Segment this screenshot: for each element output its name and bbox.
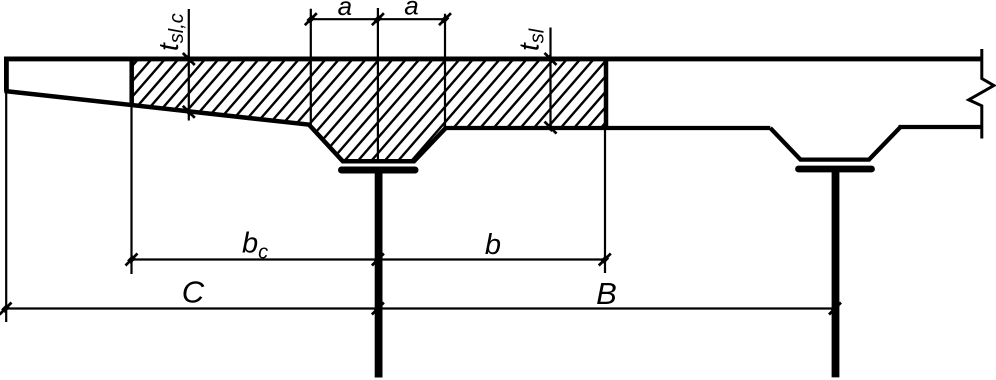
stiffener web right	[832, 171, 840, 377]
slab bottom edge right span	[899, 125, 982, 129]
trough outline right stiffener	[770, 127, 900, 160]
extension line a right	[444, 14, 446, 128]
arrow t_sl top	[545, 53, 557, 65]
tick C left	[0, 303, 12, 315]
svg-text:tsl,c: tsl,c	[153, 13, 188, 51]
svg-text:C: C	[182, 275, 205, 310]
dimension line bc-b	[132, 258, 605, 260]
extension line a left	[310, 9, 312, 125]
hatch zone left boundary	[129, 57, 134, 108]
stiffener flange middle	[342, 167, 416, 174]
extension line left edge	[5, 93, 7, 322]
centerline middle stiffener	[377, 8, 379, 161]
svg-text:bc: bc	[242, 228, 268, 264]
stiffener flange right	[799, 166, 872, 173]
dimension line C-B	[6, 307, 836, 309]
slab top edge	[4, 56, 982, 61]
extension line below hatch right boundary	[604, 130, 606, 273]
tick bc left	[126, 254, 138, 266]
slab left end edge	[4, 57, 9, 92]
hatched effective slab area	[13, 48, 737, 172]
dimension line a-a	[311, 18, 445, 20]
arrow t_sl,c bottom	[183, 106, 195, 118]
svg-text:B: B	[596, 276, 617, 311]
svg-text:b: b	[485, 229, 501, 261]
svg-text:a: a	[338, 0, 352, 21]
slab bottom edge middle span	[444, 126, 771, 130]
hatch zone right boundary	[604, 57, 609, 131]
dimension line t_sl,c	[188, 9, 190, 121]
break symbol right end	[969, 49, 994, 139]
haunch outline middle stiffener	[309, 125, 446, 162]
tick a right	[439, 13, 451, 25]
tick C-B middle	[372, 303, 384, 315]
stiffener web middle	[375, 172, 383, 378]
tick bc-b middle	[372, 254, 384, 266]
svg-text:a: a	[404, 0, 418, 21]
arrow t_sl bottom	[545, 122, 557, 134]
tick b right	[599, 254, 611, 266]
arrow t_sl,c top	[183, 53, 195, 65]
svg-text:tsl: tsl	[514, 28, 549, 51]
slab tapered bottom edge	[5, 91, 310, 125]
tick a middle	[372, 13, 384, 25]
tick B right	[829, 303, 841, 315]
dimension line t_sl	[549, 28, 551, 131]
extension line below hatch left boundary	[130, 106, 132, 274]
tick a left	[305, 13, 317, 25]
